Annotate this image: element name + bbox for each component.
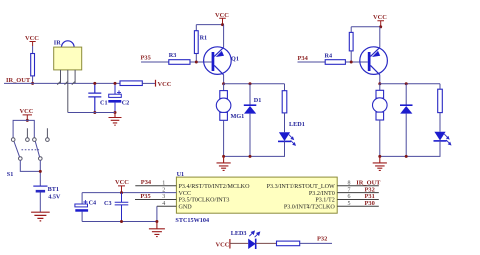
wire collector to rail	[379, 27, 381, 48]
ground (right driver)	[373, 156, 387, 170]
power port VCC (bar style)	[229, 239, 231, 249]
pin 1	[135, 185, 176, 187]
svg-text:4.5V: 4.5V	[48, 193, 61, 200]
wire emitter down	[223, 75, 225, 84]
svg-text:VCC: VCC	[115, 179, 129, 186]
wire collector to rail	[223, 25, 225, 48]
svg-text:6: 6	[348, 194, 351, 200]
wire to base	[190, 61, 212, 63]
node junction on IR_OUT wire	[31, 82, 34, 85]
transistor Q1	[204, 47, 239, 75]
wire pin4 to gnd rail	[82, 206, 157, 221]
power port VCC (Q1)	[219, 18, 226, 24]
svg-text:P3.3/INT1/RSTOUT_LOW: P3.3/INT1/RSTOUT_LOW	[267, 184, 335, 190]
capacitor C2 (polarized)	[108, 83, 121, 112]
wire to base	[345, 61, 367, 63]
svg-text:P30: P30	[365, 200, 375, 207]
power port VCC (battery)	[23, 115, 32, 121]
pin 7	[337, 192, 379, 194]
svg-text:P34: P34	[298, 55, 309, 62]
svg-text:P3.4/RST/T0/INT2/MCLKO: P3.4/RST/T0/INT2/MCLKO	[179, 184, 251, 190]
svg-text:VCC: VCC	[158, 81, 172, 88]
wire	[142, 82, 155, 84]
diode D1	[244, 84, 262, 157]
svg-text:Q1: Q1	[231, 55, 239, 62]
svg-text:P34: P34	[141, 179, 152, 186]
ground (IR section)	[109, 113, 122, 126]
svg-text:C4: C4	[89, 200, 97, 207]
wire	[298, 61, 326, 63]
wire to bottom rail	[380, 141, 440, 157]
svg-text:P3.1/T2: P3.1/T2	[315, 198, 334, 204]
svg-text:VCC: VCC	[20, 108, 34, 115]
svg-text:P35: P35	[141, 55, 151, 62]
power port VCC (bar style)	[155, 80, 157, 87]
svg-text:P32: P32	[317, 236, 327, 243]
svg-text:LED3: LED3	[231, 230, 247, 237]
svg-text:R4: R4	[325, 53, 333, 60]
svg-text:STC15W104: STC15W104	[175, 217, 209, 224]
LED2	[434, 132, 451, 145]
svg-text:VCC: VCC	[215, 12, 229, 19]
transistor Q2	[360, 47, 388, 75]
resistor (series to VCC, horizontal)	[120, 81, 142, 86]
wire top rail	[351, 26, 381, 28]
svg-text:R1: R1	[200, 35, 208, 42]
resistor R1	[195, 25, 197, 31]
svg-text:P3.0/INT4/T2CLKO: P3.0/INT4/T2CLKO	[284, 205, 336, 211]
svg-text:S1: S1	[7, 171, 14, 178]
svg-text:LED1: LED1	[289, 121, 305, 128]
resistor (LED1 series)	[284, 84, 286, 91]
LED1	[278, 121, 305, 145]
svg-text:BT1: BT1	[48, 186, 59, 193]
wire	[32, 46, 34, 54]
wire emitter down	[379, 75, 381, 84]
wire battery to ground	[39, 193, 41, 213]
svg-text:P3.5/T0CLKO/INT3: P3.5/T0CLKO/INT3	[179, 198, 230, 204]
resistor R4	[325, 60, 345, 65]
switch S1 (DPDT)	[11, 128, 49, 160]
svg-text:2: 2	[162, 187, 165, 193]
wire to bottom rail	[224, 141, 285, 156]
resistor (IR pull-up, unlabeled)	[31, 54, 35, 76]
pin 2 (VCC rail)	[82, 192, 176, 194]
resistor (LED2 series)	[439, 84, 441, 90]
LED3	[231, 230, 260, 249]
motor (right, unlabeled)	[373, 84, 388, 157]
capacitor C4 (polarized)	[75, 193, 88, 222]
svg-text:P35: P35	[140, 193, 150, 200]
node	[26, 119, 29, 122]
svg-text:IR_OUT: IR_OUT	[6, 77, 31, 84]
wire top rail	[196, 24, 222, 26]
wire	[13, 120, 34, 137]
svg-text:U1: U1	[177, 171, 185, 178]
battery BT1	[33, 186, 47, 191]
svg-text:P3.2/INT0: P3.2/INT0	[309, 191, 335, 197]
pin 8	[337, 185, 379, 187]
wire	[32, 76, 34, 84]
wire	[300, 242, 332, 244]
capacitor C3	[115, 193, 129, 222]
IR receiver IR (yellow body)	[54, 40, 82, 70]
svg-text:VCC: VCC	[25, 35, 39, 42]
wire commons to battery	[20, 160, 40, 186]
svg-text:VCC: VCC	[373, 14, 387, 21]
svg-text:D1: D1	[254, 97, 262, 104]
svg-text:3: 3	[162, 194, 165, 200]
power port VCC (MCU)	[118, 186, 125, 193]
svg-text:C1: C1	[100, 99, 108, 106]
ground (left driver)	[217, 156, 231, 170]
wire	[256, 242, 277, 244]
svg-text:IR: IR	[54, 40, 61, 47]
wire	[230, 242, 248, 244]
resistor (LED3 series)	[277, 241, 300, 246]
svg-text:4: 4	[162, 201, 165, 207]
motor MG1	[216, 84, 231, 157]
svg-text:VCC: VCC	[179, 191, 192, 197]
pin 6	[337, 199, 379, 201]
power port VCC (Q2)	[377, 21, 384, 27]
wire IR_OUT horizontal	[4, 82, 120, 84]
resistor (Q2 pull-up, unlabeled)	[350, 27, 352, 33]
svg-text:C2: C2	[122, 99, 130, 106]
resistor R3	[169, 60, 190, 65]
op-amp U1 body	[176, 177, 337, 213]
pin 4	[157, 205, 177, 207]
svg-text:5: 5	[348, 201, 351, 207]
wire emitter rail	[224, 83, 285, 85]
svg-text:GND: GND	[179, 205, 193, 211]
ground (battery)	[31, 212, 50, 221]
svg-text:7: 7	[348, 187, 351, 193]
power port VCC (top-left)	[30, 42, 36, 47]
IR legs	[57, 70, 75, 113]
wire (gnd rail of IR section)	[68, 112, 115, 114]
pin 5	[337, 205, 379, 207]
wire	[141, 61, 169, 63]
svg-text:1: 1	[162, 180, 165, 186]
svg-text:MG1: MG1	[231, 113, 245, 120]
ground (MCU)	[149, 222, 165, 237]
capacitor C1	[88, 83, 101, 112]
svg-text:8: 8	[348, 180, 351, 186]
svg-text:R3: R3	[169, 52, 177, 59]
svg-text:C3: C3	[104, 200, 112, 207]
diode (right, unlabeled)	[400, 84, 413, 157]
wire emitter rail	[380, 83, 440, 85]
svg-text:VCC: VCC	[216, 241, 230, 248]
pin 3	[135, 199, 176, 201]
